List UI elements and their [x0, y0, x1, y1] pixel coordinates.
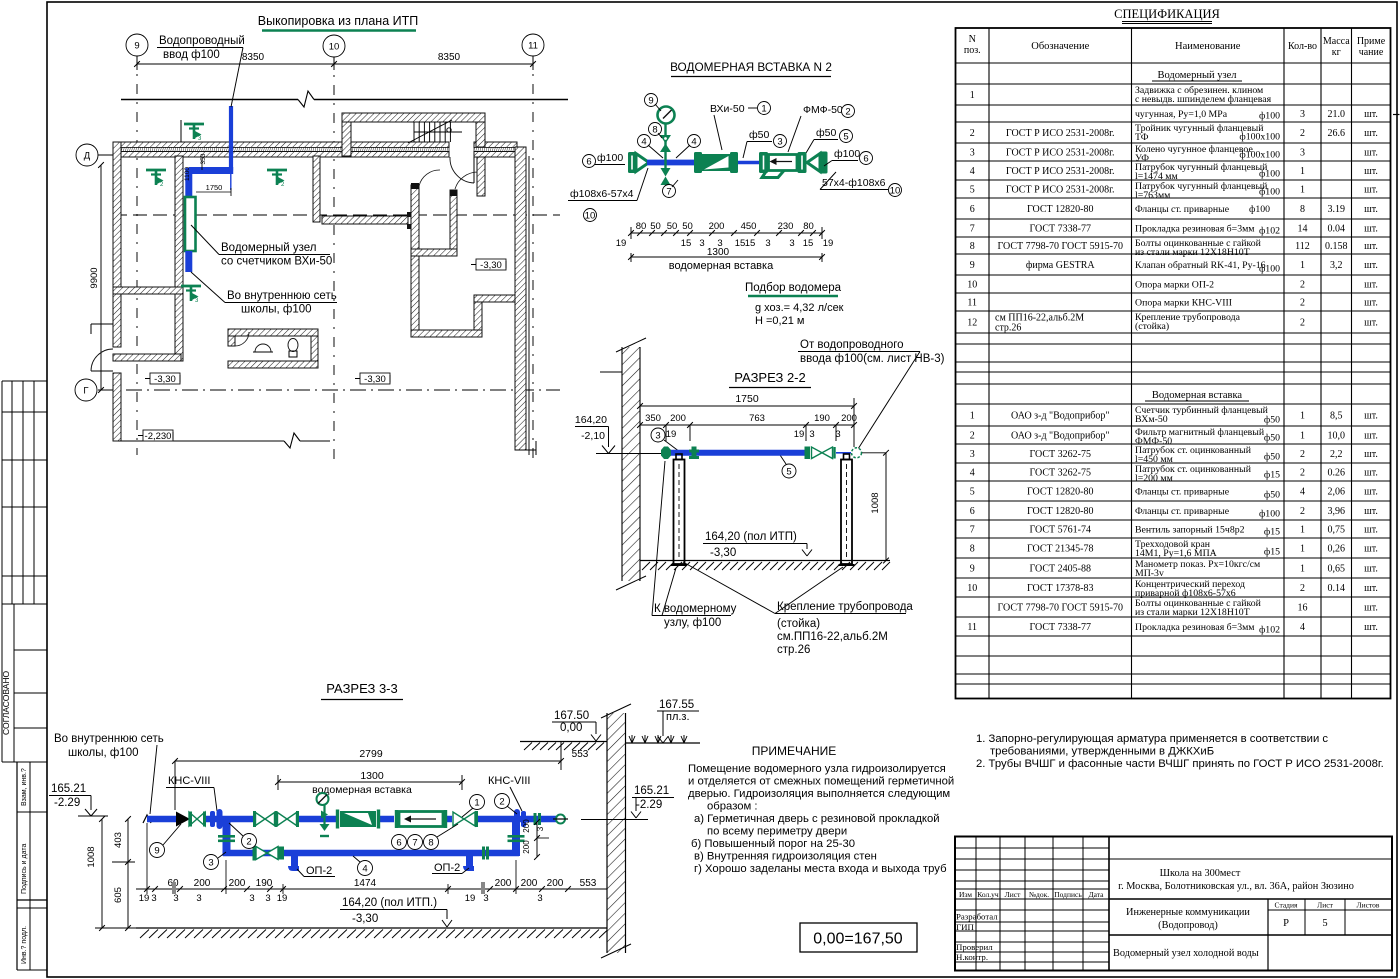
svg-text:ГОСТ 21345-78: ГОСТ 21345-78: [1027, 544, 1093, 555]
label vodoprovodny vvod: [157, 35, 245, 107]
svg-text:200: 200: [521, 878, 538, 889]
svg-text:пл.з.: пл.з.: [666, 711, 690, 723]
svg-text:ОАО з-д "Водоприбор": ОАО з-д "Водоприбор": [1011, 431, 1109, 442]
svg-text:Кол.уч: Кол.уч: [977, 890, 999, 899]
svg-text:ф15: ф15: [1264, 527, 1280, 538]
plan green tap symbol left: [146, 170, 166, 188]
svg-text:14: 14: [1298, 224, 1308, 235]
svg-text:Наименование: Наименование: [1175, 41, 1241, 52]
specification header: [964, 34, 1386, 58]
svg-text:шт.: шт.: [1364, 431, 1378, 442]
svg-text:403: 403: [113, 832, 124, 848]
svg-text:3: 3: [1300, 109, 1305, 120]
left margin stamp strip: [1, 381, 47, 970]
svg-text:ввод ф100: ввод ф100: [163, 49, 220, 61]
spec row 10 opora: [967, 280, 1378, 291]
vstavka water meter VHi-50: [694, 152, 738, 173]
wall edge line above band: [180, 120, 182, 142]
svg-text:2: 2: [1300, 583, 1305, 594]
svg-text:ф102: ф102: [1259, 226, 1280, 237]
svg-text:1: 1: [1300, 185, 1305, 196]
left exterior wall: [91, 142, 121, 441]
svg-text:ГОСТ 17378-83: ГОСТ 17378-83: [1027, 583, 1093, 594]
svg-text:ГОСТ 12820-80: ГОСТ 12820-80: [1027, 506, 1093, 517]
svg-text:шт.: шт.: [1364, 298, 1378, 309]
svg-text:15: 15: [681, 238, 692, 249]
svg-text:шт.: шт.: [1364, 583, 1378, 594]
svg-text:со счетчиком ВХи-50: со счетчиком ВХи-50: [221, 256, 332, 268]
razrez33 bottom dim chain: [136, 823, 607, 904]
svg-text:Обозначение: Обозначение: [1031, 41, 1089, 52]
svg-text:5: 5: [786, 466, 791, 477]
svg-text:1008: 1008: [870, 492, 881, 513]
axis circle 11: [522, 34, 544, 56]
title block: [955, 837, 1392, 971]
svg-text:узлу, ф100: узлу, ф100: [664, 617, 721, 629]
razrez22 dashed circle connection: [852, 448, 862, 458]
spec row 4 patrubok: [970, 162, 1378, 182]
svg-text:ГИП: ГИП: [956, 922, 974, 932]
svg-text:а) Герметичная дверь с резинов: а) Герметичная дверь с резиновой проклад…: [694, 813, 940, 825]
svg-text:Подпись и дата: Подпись и дата: [21, 844, 28, 894]
svg-text:7: 7: [970, 224, 975, 235]
svg-text:Лист: Лист: [1317, 901, 1333, 910]
svg-text:19: 19: [794, 429, 805, 440]
svg-text:Инв.? подл.: Инв.? подл.: [21, 926, 28, 964]
spec vstavka bolts row: [998, 598, 1378, 618]
svg-text:школы, ф100: школы, ф100: [241, 304, 312, 316]
svg-text:3: 3: [483, 893, 488, 904]
plan small dims 353 1100 1750: [184, 153, 231, 196]
svg-text:2: 2: [970, 431, 975, 442]
svg-text:9900: 9900: [89, 267, 100, 288]
specification title: [1114, 7, 1220, 24]
svg-text:2: 2: [1300, 128, 1305, 139]
svg-text:требованиями, утвержденными в: требованиями, утвержденными в ДЖКХиБ: [990, 746, 1214, 758]
svg-text:0.26: 0.26: [1328, 468, 1346, 479]
svg-text:ввода ф100(см. лист НВ-3): ввода ф100(см. лист НВ-3): [800, 353, 945, 365]
razrez33 dim 1300 vstavka: [275, 770, 465, 796]
svg-text:3: 3: [1300, 148, 1305, 159]
svg-text:Водомерный узел: Водомерный узел: [1157, 70, 1236, 81]
razrez33 manometer branch: [317, 793, 330, 836]
vstavka pipe left phi100: [583, 152, 626, 168]
svg-text:РАЗРЕЗ 2-2: РАЗРЕЗ 2-2: [734, 370, 806, 385]
svg-text:шт.: шт.: [1364, 260, 1378, 271]
razrez33 left dims 1008 403 605: [86, 816, 136, 931]
razrez33 water meter (green outline, arrow): [395, 810, 447, 828]
razrez22 dim 1750: [637, 393, 857, 447]
svg-text:шт.: шт.: [1364, 241, 1378, 252]
svg-text:2: 2: [845, 106, 850, 117]
svg-text:8: 8: [428, 837, 433, 848]
vstavka main blue pipe: [647, 160, 695, 166]
svg-text:1750: 1750: [206, 183, 223, 192]
label ot vodoprovodnogo vvoda: [798, 339, 945, 449]
vstavka callouts 9 8 4 4 7: [638, 94, 701, 198]
razrez33 bypass pipe (blue): [223, 850, 519, 857]
spec row 2 troinik: [970, 123, 1378, 143]
razrez33 filter FMF (green): [336, 810, 380, 829]
svg-text:Дата: Дата: [1089, 890, 1105, 899]
svg-text:8: 8: [970, 241, 975, 252]
razrez22 flange cross: [689, 447, 699, 460]
svg-text:шт.: шт.: [1364, 185, 1378, 196]
label k vodomernomu uzlu: [652, 461, 737, 629]
svg-text:ГОСТ 12820-80: ГОСТ 12820-80: [1027, 487, 1093, 498]
svg-text:200: 200: [547, 878, 564, 889]
wall W6 horizontal with opening: [322, 212, 413, 229]
spec row 1 zadvizhka: [970, 85, 1272, 105]
razrez33 KNS-VIII clamp right (blue): [514, 809, 526, 829]
svg-text:Водомерный узел: Водомерный узел: [221, 242, 316, 254]
svg-text:1: 1: [970, 411, 975, 422]
svg-text:Подбор водомера: Подбор водомера: [745, 282, 842, 294]
razrez33 upper ground left of wall: [520, 742, 607, 763]
vstavka right reducer assembly: [798, 152, 828, 174]
svg-text:11: 11: [967, 298, 977, 309]
svg-text:3: 3: [777, 136, 782, 147]
axis circle G: [75, 379, 97, 401]
svg-text:1: 1: [761, 103, 766, 114]
svg-text:шт.: шт.: [1364, 109, 1378, 120]
plan green tap symbol bottom: [181, 286, 201, 304]
razrez33 level 164,20 pol ITP: [340, 897, 452, 927]
spec row 8 bolty: [970, 238, 1378, 258]
svg-text:4: 4: [970, 468, 975, 479]
svg-text:шт.: шт.: [1364, 525, 1378, 536]
svg-text:0.04: 0.04: [1328, 224, 1346, 235]
svg-text:7: 7: [970, 525, 975, 536]
svg-text:ГОСТ 7798-70 ГОСТ 5915-70: ГОСТ 7798-70 ГОСТ 5915-70: [998, 603, 1123, 614]
svg-text:10: 10: [890, 185, 901, 196]
svg-text:ф15: ф15: [1264, 547, 1280, 558]
razrez33 dim 2799: [172, 741, 564, 810]
svg-text:Н.контр.: Н.контр.: [956, 952, 988, 962]
svg-text:ф100: ф100: [597, 152, 623, 164]
svg-text:6: 6: [970, 506, 975, 517]
vstavka label FMF-50: [788, 104, 855, 152]
svg-text:6: 6: [396, 837, 401, 848]
svg-text:г. Москва, Болотниковская ул.,: г. Москва, Болотниковская ул., вл. 36А, …: [1118, 881, 1354, 892]
svg-text:из стали марки 12Х18Н10Т: из стали марки 12Х18Н10Т: [1135, 607, 1250, 618]
razrez33 green flanges right: [534, 813, 542, 825]
razrez22 wall hatched: [600, 338, 646, 590]
svg-text:кг: кг: [1332, 47, 1341, 58]
svg-text:2: 2: [1300, 468, 1305, 479]
spec vstavka row 1: [970, 405, 1378, 426]
svg-text:ф102: ф102: [1259, 625, 1280, 636]
svg-text:2799: 2799: [359, 748, 383, 760]
svg-text:4: 4: [691, 136, 696, 147]
svg-text:Клапан обратный RK-41, Ру-16: Клапан обратный RK-41, Ру-16: [1135, 260, 1266, 271]
svg-text:8,5: 8,5: [1330, 411, 1343, 422]
razrez33 ground line: [136, 928, 608, 938]
svg-text:ГОСТ 7338-77: ГОСТ 7338-77: [1030, 224, 1091, 235]
svg-text:1: 1: [1300, 544, 1305, 555]
svg-text:Кол-во: Кол-во: [1288, 41, 1317, 52]
svg-text:12: 12: [967, 318, 977, 329]
svg-text:4: 4: [362, 863, 367, 874]
svg-text:2: 2: [1300, 506, 1305, 517]
svg-text:шт.: шт.: [1364, 544, 1378, 555]
vstavka label 57x4-f108x6: [820, 172, 902, 197]
svg-text:0,00: 0,00: [560, 722, 582, 734]
svg-text:ГОСТ 5761-74: ГОСТ 5761-74: [1030, 525, 1091, 536]
razrez22 blue pipe: [666, 450, 807, 456]
svg-text:Г: Г: [83, 385, 88, 396]
svg-text:ф100: ф100: [1259, 264, 1280, 275]
svg-text:по всему периметру двери: по всему периметру двери: [707, 826, 847, 838]
svg-text:-2,230: -2,230: [145, 431, 172, 442]
svg-text:200: 200: [709, 221, 725, 232]
svg-text:ГОСТ 2405-88: ГОСТ 2405-88: [1030, 564, 1091, 575]
svg-text:поз.: поз.: [964, 45, 981, 56]
svg-text:11: 11: [528, 40, 538, 51]
svg-text:2: 2: [1300, 298, 1305, 309]
svg-text:ф100: ф100: [1259, 187, 1280, 198]
svg-text:19: 19: [139, 893, 150, 904]
razrez22 flange hex left: [661, 447, 671, 460]
vstavka overall dim 1300: [628, 247, 825, 272]
razrez33 bypass right flange: [482, 847, 489, 860]
spec vstavka row 9: [970, 559, 1378, 579]
svg-text:11: 11: [967, 622, 977, 633]
vstavka thin pipe phi50: [738, 161, 760, 164]
wall W7 column: [313, 156, 320, 222]
svg-text:дверью. Гидроизоляция выполняе: дверью. Гидроизоляция выполняется следую…: [688, 788, 950, 800]
vstavka label VHi-50: [710, 102, 771, 151]
svg-text:9: 9: [970, 260, 975, 271]
svg-text:1: 1: [1300, 564, 1305, 575]
vstavka branch with manometer: [658, 107, 675, 186]
svg-text:шт.: шт.: [1364, 148, 1378, 159]
svg-text:7: 7: [666, 186, 671, 197]
label KNS-VIII right: [488, 775, 530, 811]
svg-text:19: 19: [823, 238, 834, 249]
svg-text:164,20 (пол ИТП.): 164,20 (пол ИТП.): [342, 897, 437, 909]
specification table grid: [956, 28, 1391, 699]
svg-text:водомерная вставка: водомерная вставка: [669, 260, 774, 272]
svg-text:Фланцы ст. приварные: Фланцы ст. приварные: [1135, 506, 1230, 517]
svg-text:шт.: шт.: [1364, 318, 1378, 329]
razrez33 main valves pair: [253, 811, 299, 827]
spec vstavka row 3: [970, 445, 1378, 465]
svg-text:1: 1: [474, 797, 479, 808]
svg-text:3: 3: [655, 430, 660, 441]
svg-text:-3,30: -3,30: [710, 547, 736, 559]
vstavka label phi100 right: [824, 148, 873, 166]
label KNS-VIII left: [166, 775, 217, 811]
svg-text:1008: 1008: [86, 846, 97, 867]
spec vstavka row 8: [970, 539, 1378, 559]
svg-text:Вентиль запорный 15ч8р2: Вентиль запорный 15ч8р2: [1135, 525, 1245, 536]
svg-text:ВХи-50: ВХи-50: [710, 103, 745, 115]
svg-text:15: 15: [803, 238, 814, 249]
svg-text:2: 2: [246, 836, 251, 847]
right exterior wall: [515, 147, 536, 455]
svg-text:Во внутреннюю сеть: Во внутреннюю сеть: [54, 733, 164, 745]
podbor vodomera heading: [745, 282, 844, 327]
svg-text:7: 7: [412, 837, 417, 848]
razrez33 right wall: [601, 704, 631, 958]
svg-text:ф100: ф100: [1249, 204, 1270, 215]
svg-text:б) Повышенный порог на 25-30: б) Повышенный порог на 25-30: [691, 838, 855, 850]
svg-text:80: 80: [803, 221, 814, 232]
svg-text:5: 5: [1322, 918, 1327, 929]
plan water inlet pipe (blue): [189, 106, 233, 197]
razrez33 check valve (pos 9): [176, 812, 206, 827]
svg-text:ГОСТ Р ИСО 2531-2008г.: ГОСТ Р ИСО 2531-2008г.: [1006, 148, 1115, 159]
primechanie block: [688, 744, 954, 875]
svg-text:шт.: шт.: [1364, 128, 1378, 139]
spec row 3 koleno: [970, 144, 1378, 164]
plan green tap symbol top: [184, 124, 204, 142]
svg-text:в) Внутренняя гидроизоляция ст: в) Внутренняя гидроизоляция стен: [694, 851, 877, 863]
svg-text:Выкопировка из плана ИТП: Выкопировка из плана ИТП: [258, 14, 418, 28]
svg-text:(стойка): (стойка): [777, 618, 820, 630]
svg-text:57х4-ф108х6: 57х4-ф108х6: [822, 177, 886, 189]
svg-text:2,2: 2,2: [1330, 449, 1343, 460]
svg-text:1: 1: [970, 90, 975, 101]
svg-text:ф100: ф100: [1259, 111, 1280, 122]
svg-text:Лист: Лист: [1005, 890, 1021, 899]
vstavka label f108x6-57x4: [568, 168, 648, 222]
svg-text:Фланцы ст. приварные: Фланцы ст. приварные: [1135, 487, 1230, 498]
right room walls: [411, 157, 515, 337]
svg-text:3: 3: [196, 893, 201, 904]
svg-text:3: 3: [208, 857, 213, 868]
plan pipe to school network (blue): [185, 251, 192, 272]
razrez33 drop pipe right (blue): [508, 819, 525, 856]
svg-text:РАЗРЕЗ 3-3: РАЗРЕЗ 3-3: [326, 681, 398, 696]
plan top dimension 8350+8350: [134, 52, 536, 70]
svg-text:г) Хорошо заделаны места входа: г) Хорошо заделаны места входа и выхода …: [694, 863, 947, 875]
svg-text:Помещение водомерного узла гид: Помещение водомерного узла гидроизолируе…: [688, 763, 946, 775]
spec row 5 patrubok: [970, 181, 1378, 201]
vstavka label phi50 second: [806, 127, 853, 153]
svg-text:3: 3: [809, 429, 814, 440]
svg-text:(стойка): (стойка): [1135, 321, 1169, 332]
svg-text:2. Трубы ВЧШГ и фасонные части: 2. Трубы ВЧШГ и фасонные части ВЧШГ прин…: [976, 758, 1384, 770]
svg-text:200: 200: [194, 878, 211, 889]
svg-text:Приме: Приме: [1357, 36, 1386, 47]
svg-text:10: 10: [329, 41, 340, 52]
level 165.21 left: [49, 783, 108, 816]
svg-text:165.21: 165.21: [51, 783, 86, 795]
svg-text:1300: 1300: [360, 770, 384, 782]
svg-text:200: 200: [495, 878, 512, 889]
svg-text:10: 10: [967, 280, 977, 291]
svg-text:9: 9: [970, 564, 975, 575]
svg-text:21.0: 21.0: [1328, 109, 1346, 120]
interior wall W3: [113, 354, 181, 361]
svg-text:стр.26: стр.26: [995, 323, 1021, 334]
plan bottom cut line: [118, 433, 330, 448]
svg-text:N: N: [969, 34, 976, 45]
svg-text:шт.: шт.: [1364, 603, 1378, 614]
svg-text:3,96: 3,96: [1328, 506, 1346, 517]
label vo vnutrennyuyu set: [191, 272, 337, 316]
svg-text:2: 2: [1300, 449, 1305, 460]
svg-text:0,65: 0,65: [1328, 564, 1346, 575]
svg-text:ВОДОМЕРНАЯ ВСТАВКА N 2: ВОДОМЕРНАЯ ВСТАВКА N 2: [670, 60, 832, 74]
spec vstavka row 5: [970, 487, 1378, 501]
svg-text:и отделяется от смежных помеще: и отделяется от смежных помещений гермет…: [688, 776, 954, 788]
razrez22 level 164,20 pol ITP: [703, 531, 812, 559]
svg-text:200: 200: [522, 819, 531, 833]
WC room walls: [228, 329, 318, 368]
label vodomerny uzel: [191, 225, 332, 268]
svg-text:l=763мм: l=763мм: [1135, 190, 1170, 201]
svg-text:1300: 1300: [707, 247, 730, 258]
svg-text:2,06: 2,06: [1328, 487, 1346, 498]
svg-text:Стадия: Стадия: [1275, 901, 1298, 910]
svg-text:шт.: шт.: [1364, 224, 1378, 235]
razrez33 pipe end cap: [553, 815, 568, 824]
spec row 1b chugunnaya: [1135, 109, 1378, 122]
razrez33 callouts: [150, 843, 165, 858]
svg-text:КНС-VIII: КНС-VIII: [488, 775, 530, 787]
svg-text:ф50: ф50: [1264, 433, 1280, 444]
svg-text:14М1, Ру=1,6 МПА: 14М1, Ру=1,6 МПА: [1135, 548, 1217, 559]
svg-text:15: 15: [745, 238, 756, 249]
svg-text:-3,30: -3,30: [154, 374, 176, 385]
svg-text:шт.: шт.: [1364, 204, 1378, 215]
razrez22 thin pipe to circle: [836, 452, 851, 454]
svg-text:ВХм-50: ВХм-50: [1135, 414, 1168, 425]
svg-text:80: 80: [636, 221, 647, 232]
label vo vnutrennyuyu set 3-3: [54, 733, 164, 814]
svg-text:Р: Р: [1283, 918, 1289, 929]
svg-text:230: 230: [778, 221, 794, 232]
svg-text:10,0: 10,0: [1328, 431, 1346, 442]
svg-text:Н =0,21 м: Н =0,21 м: [755, 315, 804, 327]
svg-text:4: 4: [1300, 487, 1305, 498]
svg-text:шт.: шт.: [1364, 622, 1378, 633]
svg-text:10: 10: [967, 583, 977, 594]
svg-text:9: 9: [154, 845, 159, 856]
svg-text:1: 1: [1300, 411, 1305, 422]
svg-text:605: 605: [113, 887, 124, 903]
svg-text:Опора марки ОП-2: Опора марки ОП-2: [1135, 280, 1214, 291]
axis circle D: [76, 144, 98, 166]
svg-text:1. Запорно-регулирующая армату: 1. Запорно-регулирующая арматура применя…: [976, 733, 1328, 745]
svg-text:1: 1: [1300, 166, 1305, 177]
plan green tap symbol right: [267, 170, 287, 188]
svg-text:1: 1: [1300, 525, 1305, 536]
plan axis grid dashed lines: [98, 56, 560, 460]
svg-text:шт.: шт.: [1364, 468, 1378, 479]
svg-text:1750: 1750: [735, 393, 759, 405]
razrez33 drop pipe left (blue): [218, 819, 235, 856]
svg-text:чугунная, Ру=1,0 МРа: чугунная, Ру=1,0 МРа: [1135, 109, 1228, 120]
spec vstavka row 2: [970, 427, 1378, 447]
svg-text:(Водопровод): (Водопровод): [1158, 920, 1218, 931]
svg-text:чание: чание: [1359, 47, 1384, 58]
svg-text:200: 200: [841, 413, 857, 424]
svg-text:ф50: ф50: [1264, 415, 1280, 426]
svg-text:3.19: 3.19: [1328, 204, 1346, 215]
svg-text:3: 3: [789, 238, 794, 249]
svg-text:6: 6: [863, 153, 868, 164]
svg-text:5: 5: [970, 185, 975, 196]
svg-text:шт.: шт.: [1364, 280, 1378, 291]
svg-text:Проверил: Проверил: [956, 942, 993, 952]
razrez33 right valve: [453, 811, 478, 827]
svg-text:0.14: 0.14: [1328, 583, 1346, 594]
vstavka filter FMF-50: [759, 152, 797, 178]
